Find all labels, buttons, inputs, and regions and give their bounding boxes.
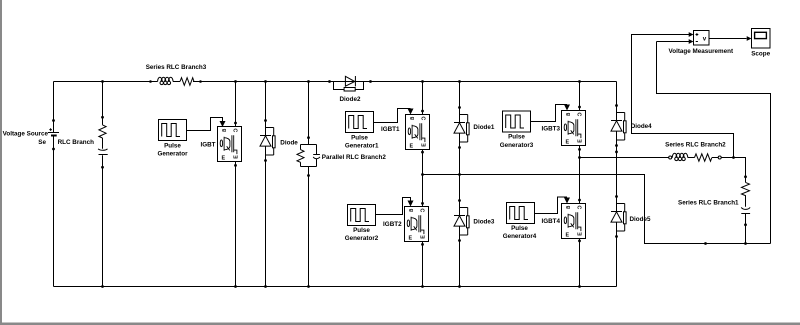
svg-text:Diode: Diode bbox=[280, 139, 298, 146]
wire IGBT1/IGBT2 column bbox=[422, 82, 424, 287]
gate arrow IGBT2 bbox=[408, 201, 414, 207]
svg-text:Se: Se bbox=[38, 139, 46, 146]
gate arrow IGBT4 bbox=[564, 198, 570, 204]
wire IGBT3/IGBT4 column bbox=[579, 82, 581, 287]
port series RLC branch2 right bbox=[718, 156, 721, 159]
IGBT3 block bbox=[562, 111, 586, 146]
svg-text:Diode5: Diode5 bbox=[630, 216, 651, 223]
wire voltage source column bbox=[53, 82, 55, 287]
port RLC branch bottom bbox=[101, 166, 104, 169]
wire parallel RLC column bbox=[308, 82, 310, 287]
junction bottom bus parallel RLC bbox=[307, 285, 310, 288]
port series RLC branch3 left bbox=[149, 80, 152, 83]
junction top bus IGBT bbox=[234, 80, 237, 83]
svg-text:Pulse: Pulse bbox=[351, 134, 368, 141]
svg-text:Pulse: Pulse bbox=[353, 227, 370, 234]
arrow VM minus input bbox=[689, 39, 694, 44]
pulse generator2 bbox=[348, 205, 376, 226]
svg-text:Parallel RLC Branch2: Parallel RLC Branch2 bbox=[322, 154, 387, 161]
wire VM output to scope bbox=[709, 38, 747, 40]
capacitor C of RLC branch bbox=[98, 149, 108, 155]
svg-text:IGBT2: IGBT2 bbox=[383, 221, 402, 228]
wire gate pulse generator2 to IGBT2 bbox=[376, 198, 411, 215]
wire top bus right segment bbox=[193, 81, 617, 83]
pulse generator3 bbox=[503, 111, 531, 132]
wire mid bus bbox=[423, 175, 771, 244]
svg-text:v: v bbox=[703, 36, 707, 43]
junction top bus diode1 bbox=[458, 80, 461, 83]
port IGBT2 C bbox=[421, 202, 424, 205]
pulse generator bbox=[159, 120, 187, 141]
arrow scope input bbox=[747, 36, 752, 41]
junction branch2 output node bbox=[732, 156, 735, 159]
junction bottom bus diode bbox=[264, 285, 267, 288]
svg-text:Series RLC Branch2: Series RLC Branch2 bbox=[665, 141, 726, 148]
wire VM minus sense bbox=[657, 42, 771, 244]
svg-text:Pulse: Pulse bbox=[508, 134, 525, 141]
port series RLC branch1 bottom bbox=[744, 223, 747, 226]
diode5 bbox=[611, 195, 626, 238]
svg-text:Voltage Source: Voltage Source bbox=[3, 131, 49, 138]
junction bottom bus IGBT4 bbox=[578, 285, 581, 288]
gate arrow IGBT1 bbox=[408, 109, 414, 115]
wire diode column bbox=[265, 82, 267, 287]
gate arrow IGBT bbox=[220, 121, 226, 127]
window left border bbox=[0, 0, 2, 325]
capacitor C series RLC branch1 bbox=[741, 207, 750, 213]
diode (with snubber) bbox=[260, 119, 275, 162]
IGBT1 block bbox=[406, 115, 430, 150]
port IGBT1 C bbox=[421, 110, 424, 113]
window bottom border bbox=[0, 323, 800, 325]
junction diode1 mid-bus node bbox=[458, 173, 461, 176]
junction diode4 bottom node bbox=[615, 151, 618, 154]
port IGBT4 E bbox=[578, 240, 581, 243]
inductor L series RLC branch2 bbox=[672, 153, 687, 160]
IGBT block bbox=[218, 127, 242, 162]
IGBT4 block bbox=[562, 204, 586, 239]
svg-text:IGBT3: IGBT3 bbox=[541, 126, 560, 133]
svg-text:Series RLC Branch1: Series RLC Branch1 bbox=[678, 200, 739, 207]
svg-text:Generator: Generator bbox=[157, 150, 188, 157]
port IGBT C bbox=[234, 122, 237, 125]
diode3 bbox=[454, 199, 469, 242]
junction branch1 bottom bus bbox=[744, 242, 747, 245]
svg-text:Scope: Scope bbox=[751, 50, 770, 57]
port IGBT E bbox=[234, 164, 237, 167]
arrow VM plus input bbox=[689, 32, 694, 37]
wire IGBT3 emitter to branch2 bbox=[580, 157, 669, 159]
port IGBT3 E bbox=[578, 148, 581, 151]
diode2 (horizontal on top bus) bbox=[334, 76, 364, 91]
svg-text:IGBT1: IGBT1 bbox=[381, 126, 400, 133]
junction bottom-right bus bbox=[704, 242, 707, 245]
junction top bus parallel RLC bbox=[307, 80, 310, 83]
svg-text:IGBT: IGBT bbox=[200, 141, 215, 148]
port series RLC branch1 top bbox=[744, 175, 747, 178]
voltage measurement block bbox=[694, 31, 710, 46]
port series RLC branch3 right bbox=[199, 80, 202, 83]
port diode2 left bbox=[328, 80, 331, 83]
wire top bus left segment bbox=[54, 81, 181, 83]
wire gate pulse generator to IGBT bbox=[187, 118, 223, 131]
svg-text:IGBT4: IGBT4 bbox=[541, 218, 560, 225]
port RLC branch top bbox=[101, 116, 104, 119]
wire IGBT column bbox=[235, 82, 237, 287]
wire series RLC branch1 column bbox=[745, 177, 747, 244]
wire gate pulse generator4 to IGBT4 bbox=[535, 197, 568, 214]
port series RLC branch2 left bbox=[669, 156, 672, 159]
svg-text:Diode2: Diode2 bbox=[340, 96, 361, 103]
port IGBT1 E bbox=[421, 151, 424, 154]
port IGBT2 E bbox=[421, 243, 424, 246]
wire gate pulse generator1 to IGBT1 bbox=[374, 109, 411, 123]
port IGBT4 C bbox=[578, 199, 581, 202]
port IGBT3 C bbox=[578, 106, 581, 109]
voltage source battery bbox=[48, 128, 59, 135]
wire gate pulse generator3 to IGBT3 bbox=[531, 105, 568, 122]
svg-text:Generator4: Generator4 bbox=[503, 233, 537, 240]
wire diode1/diode3 column bbox=[459, 82, 461, 287]
wire series RLC branch2 inner bbox=[672, 157, 719, 159]
diode4 bbox=[611, 104, 626, 147]
junction IGBT3 emitter node bbox=[578, 156, 581, 159]
gate arrow IGBT3 bbox=[564, 105, 570, 111]
parallel RLC branch2 bbox=[297, 145, 320, 167]
wire bottom bus bbox=[54, 286, 617, 288]
pulse generator1 bbox=[346, 112, 374, 133]
svg-text:Generator2: Generator2 bbox=[345, 235, 379, 242]
svg-text:Series RLC Branch3: Series RLC Branch3 bbox=[146, 64, 207, 71]
junction bottom bus IGBT bbox=[234, 285, 237, 288]
svg-text:Diode1: Diode1 bbox=[473, 124, 494, 131]
inductor L series RLC branch3 bbox=[158, 77, 173, 84]
junction bottom bus RLC bbox=[101, 285, 104, 288]
IGBT2 block bbox=[405, 207, 429, 242]
svg-text:Diode3: Diode3 bbox=[473, 218, 494, 225]
junction top bus IGBT3 bbox=[578, 80, 581, 83]
pulse generator4 bbox=[507, 203, 535, 224]
diode1 bbox=[454, 106, 469, 149]
scope block bbox=[752, 29, 771, 49]
svg-text:Generator1: Generator1 bbox=[345, 142, 379, 149]
svg-text:Pulse: Pulse bbox=[164, 142, 181, 149]
resistor R series RLC branch3 bbox=[180, 78, 194, 86]
port parallel RLC branch2 bottom bbox=[307, 174, 310, 177]
junction top bus RLC bbox=[101, 80, 104, 83]
port voltage source top bbox=[52, 119, 55, 122]
port diode2 right bbox=[369, 80, 372, 83]
wire VM plus sense bbox=[632, 35, 734, 158]
svg-text:Generator3: Generator3 bbox=[500, 142, 534, 149]
svg-text:RLC Branch: RLC Branch bbox=[58, 139, 95, 146]
junction bottom bus IGBT2 bbox=[421, 285, 424, 288]
svg-text:Diode4: Diode4 bbox=[631, 123, 652, 130]
svg-text:Voltage Measurement: Voltage Measurement bbox=[668, 48, 734, 55]
wire branch2 to branch1 bbox=[721, 158, 745, 177]
junction top bus diode bbox=[264, 80, 267, 83]
resistor R of RLC branch bbox=[99, 125, 106, 138]
resistor R series RLC branch1 bbox=[742, 182, 750, 197]
svg-text:Pulse: Pulse bbox=[511, 225, 528, 232]
resistor R series RLC branch2 bbox=[695, 154, 712, 161]
junction top bus IGBT1 bbox=[421, 80, 424, 83]
junction bottom bus diode3 bbox=[458, 285, 461, 288]
port parallel RLC branch2 top bbox=[307, 136, 310, 139]
wire diode4/diode5 column bbox=[616, 82, 618, 287]
port voltage source bottom bbox=[52, 148, 55, 151]
junction IGBT1 emitter mid-bus node bbox=[421, 173, 424, 176]
wire RLC branch column bbox=[102, 82, 104, 287]
